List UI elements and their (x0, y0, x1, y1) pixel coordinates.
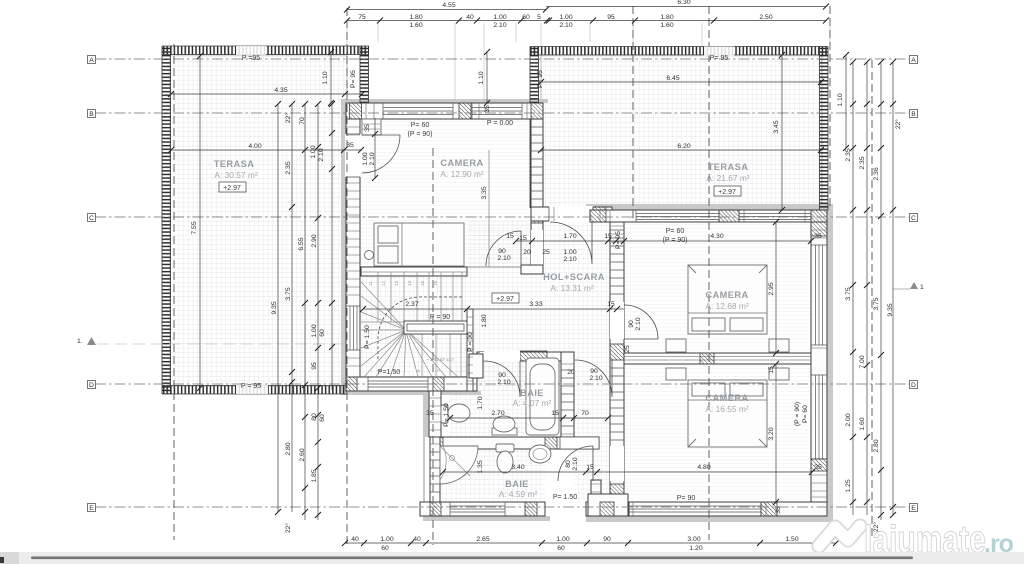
svg-text:P= 1.50: P= 1.50 (443, 403, 450, 427)
axis box D left (88, 381, 96, 390)
hatch blocks NE wall (590, 210, 606, 222)
svg-text:5: 5 (396, 369, 401, 372)
camera 12.68 floor (624, 222, 811, 353)
svg-text:2.65: 2.65 (476, 536, 489, 543)
svg-text:2.10: 2.10 (369, 152, 376, 165)
svg-text:2.10: 2.10 (493, 22, 506, 29)
bath dim row (426, 410, 611, 421)
svg-text:90: 90 (590, 368, 598, 375)
dim 6.45 terrace east (538, 75, 824, 85)
sink upper bath (492, 428, 517, 435)
svg-text:1.00: 1.00 (559, 14, 572, 21)
door opening west wall (345, 134, 361, 177)
svg-text:75: 75 (358, 14, 366, 21)
svg-text:40: 40 (351, 536, 359, 543)
axis E (95, 506, 909, 508)
svg-text:CAMERA: CAMERA (705, 290, 748, 300)
wall ladder rungs (346, 103, 827, 516)
vertical axis x872 (871, 60, 873, 540)
top chain line (347, 20, 826, 22)
right chain ticks (850, 59, 896, 518)
svg-text:1.85: 1.85 (311, 469, 318, 482)
svg-text:P= 1.50: P= 1.50 (553, 494, 577, 501)
hatch block NW corner (350, 103, 362, 119)
svg-text:15: 15 (586, 464, 594, 471)
stair side rail (467, 309, 473, 391)
axis box A left (88, 56, 96, 65)
hatch block SW corner (346, 377, 357, 391)
wall bath bottom (420, 502, 545, 516)
svg-text:P= 60: P= 60 (802, 405, 809, 423)
svg-text:P= 95: P= 95 (350, 70, 357, 88)
window east wall lower (0, 0, 1, 1)
svg-text:1.80: 1.80 (481, 314, 488, 327)
svg-text:70: 70 (581, 410, 589, 417)
dim 4.35 terrace (168, 87, 365, 97)
svg-text:1.50: 1.50 (785, 536, 798, 543)
svg-text:A: 12.90 m²: A: 12.90 m² (440, 169, 484, 179)
sink lower bath (529, 445, 551, 463)
axis B (95, 112, 909, 114)
svg-text:~ 2.92 67 ±17: ~ 2.92 67 ±17 (426, 357, 454, 362)
svg-text:3.45: 3.45 (773, 120, 780, 133)
wall piece camera SE corner (521, 265, 543, 274)
nightstands camera 12.68 (666, 339, 686, 352)
window entrance north P=0.00 (472, 103, 522, 119)
axis box E right (910, 504, 918, 513)
svg-text:CAMERA: CAMERA (705, 393, 748, 403)
svg-text:1.20: 1.20 (689, 545, 702, 552)
svg-text:1.60: 1.60 (859, 417, 866, 430)
svg-text:2.35: 2.35 (285, 161, 292, 174)
top dim 4.55 (344, 2, 549, 13)
svg-text:1.00: 1.00 (556, 536, 569, 543)
door2 dim labels (565, 457, 579, 470)
svg-text:1.00: 1.00 (493, 14, 506, 21)
left vertical chain lines (278, 104, 332, 520)
window2 NE wall (739, 210, 811, 222)
dim 1.10 mid (478, 49, 490, 106)
axis box C right (910, 214, 918, 223)
svg-text:HOL+SCARA: HOL+SCARA (543, 272, 605, 282)
left chain labels (271, 113, 326, 534)
svg-text:20: 20 (567, 369, 575, 376)
dim 1.10 right terrace (837, 52, 849, 151)
vertical axis x433 (432, 148, 434, 545)
svg-text:2.37: 2.37 (405, 301, 418, 308)
svg-text:6.45: 6.45 (666, 75, 679, 82)
svg-text:4: 4 (376, 369, 381, 372)
svg-text:35: 35 (484, 105, 491, 113)
wall north west-block (346, 103, 543, 119)
axis C (95, 216, 909, 218)
svg-text:3.75: 3.75 (845, 287, 852, 300)
camera 16.55 floor (624, 364, 811, 503)
svg-text:P =95: P =95 (242, 55, 260, 62)
svg-text:35: 35 (814, 464, 822, 471)
svg-text:2.50: 2.50 (759, 14, 772, 21)
axis D (95, 383, 909, 385)
svg-text:1.35: 1.35 (477, 460, 484, 473)
svg-text:TERASA: TERASA (708, 162, 749, 172)
svg-text:2.00: 2.00 (845, 413, 852, 426)
svg-text:2.95: 2.95 (768, 282, 775, 295)
dim 3.35 camera vertical (481, 150, 489, 267)
axis box A right (910, 56, 918, 65)
axis box B right (910, 110, 918, 119)
svg-text:2.10: 2.10 (497, 255, 510, 262)
stairs floor (361, 272, 467, 378)
window east wall upper (811, 245, 827, 345)
vertical axis x709 (708, 6, 710, 540)
svg-text:80: 80 (565, 460, 572, 468)
svg-text:80: 80 (311, 413, 318, 421)
bed3 camera 16.55 (688, 380, 767, 447)
svg-text:A: A (911, 57, 916, 64)
window1 NE wall (636, 210, 719, 222)
svg-text:A: 13.31 m²: A: 13.31 m² (550, 283, 594, 293)
svg-text:3.75: 3.75 (873, 297, 880, 310)
svg-text:95: 95 (311, 362, 318, 370)
svg-text:60: 60 (319, 329, 326, 337)
svg-text:1.00: 1.00 (380, 536, 393, 543)
svg-text:90: 90 (498, 248, 506, 255)
door to camera 16.55 (558, 446, 593, 481)
svg-text:1.80: 1.80 (409, 14, 422, 21)
svg-text:P = 0.00: P = 0.00 (487, 120, 513, 127)
bed1 camera 12.90 (374, 223, 464, 266)
hatch block camera east (531, 211, 543, 223)
svg-text:35: 35 (814, 233, 822, 240)
svg-text:90: 90 (498, 372, 506, 379)
svg-text:1.60: 1.60 (409, 22, 422, 29)
svg-text:12: 12 (381, 280, 386, 286)
hatch block hall north (593, 207, 606, 221)
svg-text:3.20: 3.20 (768, 427, 775, 440)
svg-text:2.90: 2.90 (311, 234, 318, 247)
door hall to camera12.90 (486, 231, 521, 266)
dim 7.55 terrace vertical (191, 53, 203, 391)
vertical axis x347 (346, 8, 348, 545)
svg-text:P= 90: P= 90 (677, 495, 696, 502)
svg-text:+2.97: +2.97 (223, 185, 241, 192)
railing terrace east right (820, 47, 829, 211)
svg-text:P= 95: P= 95 (537, 70, 544, 88)
svg-text:1.10: 1.10 (322, 71, 329, 84)
dim 6.20 terrace east (538, 143, 824, 153)
terrace east floor grid (541, 55, 822, 211)
nightstands camera 16.55 (666, 368, 686, 380)
door opening camera16.55 (610, 446, 624, 481)
svg-text:4.55: 4.55 (442, 2, 455, 9)
stairs handrail (404, 321, 467, 334)
axis box D right (910, 381, 918, 390)
svg-text:3.00: 3.00 (687, 536, 700, 543)
railing terrace east top (530, 47, 828, 56)
svg-text:2.10: 2.10 (318, 148, 325, 161)
wall north east-wing (590, 210, 827, 222)
svg-text:90: 90 (628, 320, 635, 328)
svg-text:4.80: 4.80 (697, 464, 710, 471)
west wall labels (350, 70, 622, 249)
room labels (214, 158, 750, 499)
dim 1.10 left (322, 49, 334, 106)
svg-text:P= 1.50: P= 1.50 (364, 325, 371, 349)
axis marker 1 left (77, 337, 96, 345)
svg-text:4.35: 4.35 (274, 87, 287, 94)
svg-text:BAIE: BAIE (520, 388, 544, 398)
svg-text:1.70: 1.70 (563, 233, 576, 240)
vertical axis x830 (829, 6, 831, 210)
top extension stubs (347, 23, 830, 100)
svg-text:6: 6 (416, 369, 421, 372)
dim 3.20 vertical (768, 361, 779, 505)
closet camera 12.90 (362, 119, 381, 135)
toilet lower bath (496, 444, 514, 452)
wall east of camera12.90 (531, 119, 543, 267)
svg-text:3.40: 3.40 (511, 464, 524, 471)
svg-text:2.10: 2.10 (589, 375, 602, 382)
svg-text:(P = 90): (P = 90) (663, 237, 688, 244)
axis box C left (88, 214, 96, 223)
svg-text:15: 15 (551, 410, 559, 417)
svg-text:16: 16 (433, 280, 438, 286)
svg-text:D: D (911, 382, 916, 389)
railing terrace east left (530, 47, 539, 209)
stair tread numbers (368, 280, 441, 372)
bathtub (526, 358, 559, 435)
wall west east-wing (610, 222, 624, 516)
svg-text:2.70: 2.70 (491, 410, 504, 417)
svg-text:A: 4.59 m²: A: 4.59 m² (499, 489, 538, 499)
toilet upper bath (441, 405, 448, 423)
door opening bath north (484, 351, 520, 362)
watermark text (864, 519, 1014, 561)
svg-text:35: 35 (775, 506, 782, 514)
svg-text:P = 95: P = 95 (241, 383, 261, 390)
window camera north (383, 103, 453, 119)
svg-text:BAIE: BAIE (505, 479, 529, 489)
axis marker 1 right (910, 282, 924, 291)
hall north dim row (506, 233, 627, 263)
svg-text:60: 60 (522, 14, 530, 21)
door opening camera12.68 (610, 302, 624, 339)
svg-text:2.10: 2.10 (559, 22, 572, 29)
corridor west wall (591, 480, 601, 504)
svg-text:15: 15 (604, 233, 612, 240)
wall hall north (entrance) (531, 207, 612, 221)
hatch block west wall mid (610, 344, 624, 360)
svg-text:E: E (89, 505, 94, 512)
svg-text:1.00: 1.00 (310, 145, 317, 158)
svg-text:P= 95: P= 95 (615, 231, 622, 249)
hatch block N mid (459, 103, 471, 119)
svg-text:2.10: 2.10 (563, 256, 576, 263)
svg-text:2.35: 2.35 (845, 148, 852, 161)
dim 4.30 (624, 233, 822, 244)
svg-text:35: 35 (426, 410, 434, 417)
bath vertical labels (443, 396, 484, 473)
svg-text:5: 5 (537, 14, 541, 21)
svg-text:1.70: 1.70 (477, 396, 484, 409)
railing terrace west right stub (360, 46, 369, 103)
eave east wing (586, 204, 833, 522)
svg-text:25: 25 (624, 345, 631, 353)
svg-text:4.00: 4.00 (248, 143, 261, 150)
svg-text:1.: 1. (77, 338, 83, 345)
stairs upper flight treads (361, 272, 467, 322)
wall east east-wing (811, 222, 827, 516)
svg-text:C: C (911, 215, 916, 222)
svg-text:A: 30.57 m²: A: 30.57 m² (214, 170, 258, 180)
P=90 P=60 labels east wall (794, 402, 809, 426)
door hall to corridor (575, 360, 612, 397)
hall dim row 3.33 (360, 301, 624, 312)
bottom bar (0, 552, 1024, 564)
svg-text:P= 95: P= 95 (710, 55, 729, 62)
beam camera south over stairs (361, 267, 467, 276)
hatch blocks east wall (811, 222, 827, 236)
svg-text:TERASA: TERASA (214, 159, 255, 169)
svg-text:B: B (89, 111, 94, 118)
svg-text:2.80: 2.80 (873, 439, 880, 452)
svg-text:B: B (911, 111, 916, 118)
svg-text:P = 90: P = 90 (467, 332, 474, 352)
bed2 camera 12.68 (688, 265, 767, 334)
dim 4.00 terrace (168, 142, 364, 153)
svg-text:40: 40 (466, 14, 474, 21)
vertical axis x633 (632, 6, 634, 222)
bath door dims (497, 368, 602, 386)
svg-text:25: 25 (542, 249, 550, 256)
right vertical chain lines (853, 62, 893, 520)
wall bath east (561, 352, 574, 438)
entrance opening (549, 206, 593, 222)
nightstand + lamp camera 12.90 (365, 251, 374, 260)
corridor floor (574, 391, 611, 503)
lower dim row 3.40 4.80 (440, 464, 822, 475)
svg-text:A: 12.68 m²: A: 12.68 m² (705, 301, 749, 311)
bottom chain (342, 536, 839, 552)
svg-text:22°: 22° (284, 113, 292, 124)
wall west (346, 119, 360, 391)
svg-text:2.60: 2.60 (299, 448, 306, 461)
bath upper floor (450, 361, 562, 437)
svg-text:60: 60 (319, 414, 326, 422)
svg-text:(P = 90): (P = 90) (794, 402, 801, 426)
svg-text:CAMERA: CAMERA (440, 158, 483, 168)
top dim 6.30 (546, 0, 829, 10)
axis 1 right stub (893, 288, 910, 290)
railing terrace west left (162, 46, 171, 394)
svg-text:9.35: 9.35 (271, 301, 278, 314)
svg-text:3.75: 3.75 (285, 287, 292, 300)
dim 2.95 vertical (768, 219, 779, 356)
svg-text:7.00: 7.00 (859, 355, 866, 368)
svg-text:6.55: 6.55 (298, 237, 305, 250)
window west wall low (346, 306, 360, 350)
svg-text:2.10: 2.10 (572, 457, 579, 470)
dim 1.80 vertical hall (481, 314, 488, 327)
window south wall (629, 502, 761, 516)
terrace west floor grid (170, 55, 347, 386)
svg-text:35: 35 (346, 142, 354, 149)
axis box E left (88, 504, 96, 513)
svg-text:1.00: 1.00 (311, 324, 318, 337)
door1 dim labels (624, 317, 642, 353)
wall bath west (429, 391, 441, 437)
camera 12.90 floor (360, 119, 532, 267)
svg-text:15: 15 (420, 280, 425, 286)
svg-text:22°: 22° (284, 523, 292, 534)
svg-text:6.20: 6.20 (677, 143, 690, 150)
eave bath block (423, 391, 550, 521)
camera east door dim (497, 235, 527, 262)
hatch block NE corner west-block (531, 103, 543, 119)
svg-text:1: 1 (920, 284, 924, 291)
railing terrace west top (162, 46, 369, 55)
svg-text:1.10: 1.10 (837, 93, 844, 106)
svg-text:11: 11 (368, 281, 373, 286)
svg-text:2.80: 2.80 (285, 442, 292, 455)
svg-text:A: 16.55 m²: A: 16.55 m² (705, 404, 749, 414)
door entrance hall (550, 222, 592, 264)
svg-text:+2.97: +2.97 (718, 189, 736, 196)
right chain labels (845, 119, 902, 533)
hatch block S stairs (433, 377, 444, 391)
svg-text:1.10: 1.10 (478, 71, 485, 84)
svg-text:6.30: 6.30 (677, 0, 690, 6)
door hall to bath upper (484, 361, 520, 397)
svg-text:2.10: 2.10 (635, 317, 642, 330)
stairs walking line arc (378, 297, 462, 360)
wall between baths (433, 437, 599, 449)
svg-text:D: D (89, 382, 94, 389)
svg-text:90: 90 (603, 536, 611, 543)
svg-text:2.36: 2.36 (873, 167, 880, 180)
svg-text:70: 70 (299, 117, 306, 125)
P labels (236, 46, 734, 502)
svg-text:2.10: 2.10 (497, 379, 510, 386)
wall south stairs (346, 377, 477, 391)
svg-text:15: 15 (768, 366, 775, 374)
svg-text:9.35: 9.35 (887, 303, 894, 316)
svg-text:22°: 22° (894, 119, 902, 130)
svg-text:1.00: 1.00 (563, 249, 576, 256)
dim 35 south vertical (775, 506, 782, 514)
door to camera 12.68 (624, 305, 658, 339)
svg-text:2.35: 2.35 (859, 156, 866, 169)
svg-text:3.33: 3.33 (529, 301, 542, 308)
svg-text:35: 35 (364, 124, 371, 132)
wall step south corridor (588, 494, 628, 516)
svg-text:+2.97: +2.97 (496, 296, 514, 303)
window south stairs (368, 377, 428, 391)
axis 1 left faint (97, 343, 345, 345)
wall bath north (477, 352, 574, 361)
svg-text:4.30: 4.30 (710, 233, 723, 240)
svg-text:E: E (911, 505, 916, 512)
svg-text:15: 15 (519, 235, 527, 242)
svg-text:A: 21.67 m²: A: 21.67 m² (706, 173, 750, 183)
watermark logo (819, 526, 860, 546)
svg-text:60: 60 (557, 545, 565, 552)
svg-text:40: 40 (413, 536, 421, 543)
svg-text:3.35: 3.35 (481, 186, 488, 199)
svg-text:1.25: 1.25 (845, 479, 852, 492)
wall south east-wing (586, 502, 827, 516)
svg-text:1.80: 1.80 (660, 14, 673, 21)
